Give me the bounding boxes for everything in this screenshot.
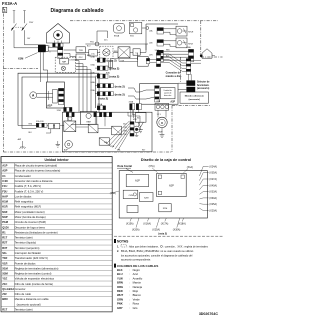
unit boundary tee (dash-dot) <box>3 68 38 70</box>
legend table Unidad interior <box>1 157 112 312</box>
fan-out wires to bottom <box>106 121 129 144</box>
svg-text:(accesorio): (accesorio) <box>197 88 209 90</box>
remote sensor box <box>129 22 141 33</box>
svg-text:F3U: F3U <box>2 189 7 193</box>
svg-text:(X1A): (X1A) <box>187 166 193 169</box>
fan motor connector X1A dark <box>130 104 135 110</box>
svg-text:: hilos que deben instalarse,: : hilos que deben instalarse, <box>128 245 159 248</box>
svg-text:Conector: Conector <box>15 287 26 291</box>
svg-text:L5B: L5B <box>149 42 153 44</box>
relay KHuR symbol <box>176 26 187 36</box>
svg-text:Vista frontal: Vista frontal <box>117 164 132 168</box>
svg-text:A4P: A4P <box>18 138 22 141</box>
M1P ground <box>161 128 163 135</box>
svg-text:R1T: R1T <box>2 308 7 312</box>
terminal down wire 2 <box>42 52 44 70</box>
svg-text:Interruptor del flotador: Interruptor del flotador <box>15 251 42 255</box>
svg-text:R1T: R1T <box>142 149 146 151</box>
svg-text:SS1: SS1 <box>130 35 135 37</box>
svg-text:Selector de: Selector de <box>197 81 210 84</box>
strip connector a <box>66 112 74 116</box>
indoor unit pictogram top right <box>202 49 212 58</box>
svg-text:YLW: YLW <box>117 276 123 280</box>
layout inner box A1P <box>126 174 148 186</box>
relay K4R box <box>112 126 122 135</box>
wire K1M to Q1DI <box>71 124 81 126</box>
wire X40A to pcb <box>95 85 97 87</box>
svg-text:Placa de circuito impreso (pri: Placa de circuito impreso (principal) <box>15 164 58 168</box>
svg-text:(X27A): (X27A) <box>209 178 217 181</box>
svg-text:Filtro de ruido (núcleo de fer: Filtro de ruido (núcleo de ferrita) <box>15 282 53 286</box>
svg-text:FX3A-A: FX3A-A <box>2 1 17 6</box>
left drop wire 1 <box>18 125 36 127</box>
svg-text::: : <box>129 277 130 280</box>
M1F wires <box>130 110 132 122</box>
svg-text:Motor (ventilador interior): Motor (ventilador interior) <box>15 210 45 214</box>
svg-text:A: A <box>32 94 35 98</box>
float wires <box>131 110 133 115</box>
connector X35A row2 <box>157 40 163 46</box>
svg-text:Q1-GB1A: Q1-GB1A <box>2 287 14 291</box>
svg-text:L5R: L5R <box>149 54 153 56</box>
svg-text:X35A: X35A <box>90 63 95 66</box>
connector X2M under A1P <box>64 107 72 111</box>
Q1DI breaker box <box>80 111 96 124</box>
svg-text:Resistencia (limitadora de cor: Resistencia (limitadora de corriente) <box>15 230 58 234</box>
M1P wires <box>157 110 159 117</box>
small box Z1C pair <box>89 50 98 56</box>
wire bus drop to selector 2 <box>190 74 192 80</box>
layout box A2P <box>157 173 187 196</box>
terminal X2M circles <box>155 103 169 110</box>
revision mark symbol <box>3 7 7 12</box>
connector X60A column <box>156 53 160 67</box>
svg-text:R1T: R1T <box>2 236 7 240</box>
wire terminal to X1A row1 <box>48 47 57 49</box>
svg-text:F1U: F1U <box>2 184 7 188</box>
svg-text:(X20A): (X20A) <box>209 210 217 213</box>
connector X33A <box>97 92 113 96</box>
svg-text:3D026764C: 3D026764C <box>199 312 219 316</box>
svg-text:Conector del mando a distancia: Conector del mando a distancia <box>15 179 53 183</box>
S1L pins <box>54 41 56 44</box>
wire X27A to pcb <box>95 75 97 77</box>
svg-text:Termistor (aire): Termistor (aire) <box>15 308 33 312</box>
float sensor triangle <box>138 122 144 127</box>
svg-text::: : <box>129 307 130 310</box>
boundary top (dash-dot) <box>70 20 218 22</box>
svg-text:16V: 16V <box>27 38 31 40</box>
svg-text:C1: C1 <box>2 174 6 178</box>
svg-text:XXX : regleta de terminales: XXX : regleta de terminales <box>177 245 208 248</box>
svg-text:(X40A): (X40A) <box>209 184 217 187</box>
svg-text:BLU: BLU <box>117 272 123 276</box>
svg-text:(X25A): (X25A) <box>209 203 217 206</box>
svg-text:BRC: BRC <box>2 297 8 301</box>
connector X27A <box>97 74 108 78</box>
control box outline outer corner <box>18 73 99 125</box>
circuit breaker pole 2 <box>22 24 27 31</box>
svg-text:Condensador: Condensador <box>15 174 31 178</box>
svg-text:A1P: A1P <box>135 178 140 182</box>
fuse F1U <box>95 42 99 46</box>
svg-text:: conexión,: : conexión, <box>163 245 176 248</box>
transformer box lower <box>76 54 85 60</box>
capacitor C2 circle <box>65 141 73 149</box>
notes header bar <box>114 239 116 243</box>
boundary horizontal at mando (dash-dot) <box>172 104 210 106</box>
svg-text:X2M: X2M <box>156 101 160 103</box>
svg-text:Z1F: Z1F <box>2 292 7 296</box>
svg-text:(X15A): (X15A) <box>126 222 134 225</box>
svg-text:Marrón: Marrón <box>133 281 142 285</box>
wires X60A diagonal bundle <box>161 54 187 63</box>
svg-text:(X33A): (X33A) <box>209 191 217 194</box>
wires group to X30A <box>163 50 188 52</box>
svg-text:Luz de diodos: Luz de diodos <box>15 194 32 198</box>
wire F3U feed <box>111 58 138 60</box>
X15A connector <box>146 58 149 63</box>
svg-text:HAP: HAP <box>2 194 8 198</box>
capacitor C1 box <box>133 49 140 55</box>
PCB A1P box <box>46 82 64 108</box>
svg-text::: : <box>129 290 130 293</box>
svg-text:Q1DI: Q1DI <box>2 225 9 229</box>
wire bend into M1F <box>128 112 140 127</box>
svg-text:M1P: M1P <box>2 215 8 219</box>
main feed wire <box>85 43 148 45</box>
svg-text:Amarillo: Amarillo <box>133 276 143 280</box>
svg-text:(nota 5): (nota 5) <box>158 232 167 235</box>
svg-text:BLK: BLK <box>117 268 123 272</box>
svg-text:R1: R1 <box>2 230 6 234</box>
wires into A2P <box>136 53 138 60</box>
svg-text:GRN: GRN <box>117 297 123 301</box>
svg-text:COLORES DE LOS CABLES: COLORES DE LOS CABLES <box>117 264 158 268</box>
svg-text:X2M: X2M <box>2 272 8 276</box>
svg-text:1: 1 <box>49 46 50 48</box>
svg-text:X2M: X2M <box>57 110 61 112</box>
svg-text:X27A: X27A <box>90 71 95 74</box>
svg-text:mando a dist.: mando a dist. <box>166 75 182 78</box>
svg-text:Y1E: Y1E <box>2 277 7 281</box>
connector X40A <box>97 84 113 88</box>
svg-text:X1M: X1M <box>163 208 168 210</box>
svg-text:A1P: A1P <box>47 104 52 108</box>
svg-text:M1F: M1F <box>2 210 8 214</box>
svg-text:Transformador (220 V/22 V): Transformador (220 V/22 V) <box>15 256 48 260</box>
strip wires <box>50 129 52 133</box>
dashed separator under layout <box>114 235 223 237</box>
svg-text:S1L: S1L <box>137 118 140 120</box>
svg-text:(nota 2): (nota 2) <box>115 92 125 96</box>
transformer T1R box upper <box>76 47 85 53</box>
svg-text:T1R: T1R <box>2 256 7 260</box>
boundary right upper (dash-dot) <box>200 21 202 57</box>
svg-text:A2P: A2P <box>170 101 175 104</box>
svg-text:X9A: X9A <box>117 149 121 152</box>
svg-text:Regleta de terminales (control: Regleta de terminales (control) <box>15 272 52 276</box>
svg-text:L5A: L5A <box>149 29 153 32</box>
A2P box <box>140 84 178 105</box>
svg-text:A3P: A3P <box>64 148 68 151</box>
svg-text:C4N: C4N <box>129 195 134 197</box>
svg-text:X33A: X33A <box>90 89 95 92</box>
svg-text:Diagrama de cableado: Diagrama de cableado <box>50 8 103 14</box>
connector X35A row3 <box>157 50 163 62</box>
svg-text:Rosa: Rosa <box>133 302 140 306</box>
boundary right lower (dash-dot) <box>171 105 173 152</box>
HAP lamp circle <box>61 66 65 70</box>
svg-text:Fusible (T, 6,3 A, 250 V): Fusible (T, 6,3 A, 250 V) <box>15 189 44 193</box>
svg-text:(nota 2): (nota 2) <box>115 84 125 88</box>
wire long feed <box>85 52 88 54</box>
left small antenna sym <box>21 141 23 147</box>
svg-text:1: 1 <box>4 9 6 13</box>
drain pump motor M1P <box>157 117 167 127</box>
svg-text:(X35A): (X35A) <box>209 172 217 175</box>
M1F ground <box>136 133 138 136</box>
HAP dashed enclosure <box>55 57 75 72</box>
svg-text:X40A: X40A <box>90 81 95 84</box>
svg-text:Relé magnético: Relé magnético <box>15 200 34 204</box>
wires to relay KHuR <box>163 28 176 30</box>
strip connector c <box>104 112 112 116</box>
svg-text:Z1C: Z1C <box>2 282 7 286</box>
layout box C4N <box>123 190 138 198</box>
svg-text:Mando a distancia: Mando a distancia <box>185 95 205 98</box>
svg-text:Negro: Negro <box>133 268 141 272</box>
control box outline inner corner <box>22 77 95 129</box>
svg-text:X29A: X29A <box>129 101 134 104</box>
A2P connector column <box>155 86 160 102</box>
svg-text:BLU: BLU <box>87 45 91 47</box>
fuse F3U symbol <box>109 59 113 71</box>
svg-text:NOTAS: NOTAS <box>117 240 129 244</box>
svg-text:(X20A): (X20A) <box>132 229 140 232</box>
svg-text:X21A: X21A <box>110 145 115 148</box>
float sensor box <box>135 113 146 123</box>
connector X35A row1 <box>157 28 163 34</box>
wireless receiver symbol <box>114 23 125 33</box>
remote controller box <box>180 92 208 103</box>
svg-text:A1P: A1P <box>2 164 7 168</box>
svg-text:Puente de diodos: Puente de diodos <box>15 261 37 265</box>
wire X24A to pcb <box>95 59 97 61</box>
svg-text:(nota 2): (nota 2) <box>109 67 119 71</box>
connector X35A <box>97 66 108 70</box>
svg-text:Z2C: Z2C <box>104 40 108 42</box>
wires to house connector <box>191 59 201 61</box>
svg-text:Mando a distancia con cable: Mando a distancia con cable <box>15 297 50 301</box>
svg-text:Circuito de inversor (PAM): Circuito de inversor (PAM) <box>15 220 46 224</box>
svg-text:BS1A: BS1A <box>114 34 120 37</box>
colores header <box>114 264 116 268</box>
svg-text:accesorio correspondiente.: accesorio correspondiente. <box>121 259 151 262</box>
svg-text:X1A F3U: X1A F3U <box>36 120 44 123</box>
colour row GRN <box>117 297 140 301</box>
svg-text:HAP: HAP <box>62 61 67 64</box>
svg-text:X30A: X30A <box>186 46 191 49</box>
wire cap onward <box>140 51 146 53</box>
svg-text:Diseño de la caja de control: Diseño de la caja de control <box>141 158 191 162</box>
layout outer box <box>119 171 207 218</box>
svg-text:A2P: A2P <box>169 183 174 187</box>
bottom strip board <box>62 112 152 152</box>
svg-text:R3T: R3T <box>2 246 7 250</box>
wire L to terminal <box>14 47 38 49</box>
wire to bridge <box>97 52 99 54</box>
svg-text:X35A: X35A <box>97 103 103 106</box>
svg-text:F1U: F1U <box>90 42 94 44</box>
svg-text:A2P: A2P <box>2 169 7 173</box>
wires X15A right <box>150 58 156 60</box>
wire N to terminal <box>25 44 39 46</box>
wire X33A to pcb <box>95 93 97 95</box>
plug housing <box>53 89 58 103</box>
connector X30A <box>188 49 193 61</box>
svg-text:(X60A): (X60A) <box>209 197 217 200</box>
wire supply N <box>24 11 26 24</box>
layout small box bottom <box>159 204 171 212</box>
HAP pilot lamp box <box>60 58 69 64</box>
svg-text:(accesorio): (accesorio) <box>189 98 200 101</box>
svg-text:Motor (bomba de drenaje): Motor (bomba de drenaje) <box>15 215 46 219</box>
ground in strip <box>57 141 59 144</box>
svg-text:Filtro de ruido: Filtro de ruido <box>15 292 32 296</box>
svg-text:Termistor (líquido): Termistor (líquido) <box>15 241 37 245</box>
wire bundle bend 2 <box>76 64 83 112</box>
svg-text:C1: C1 <box>135 52 138 54</box>
wire terminal to X1A row2 <box>48 50 57 52</box>
svg-text:M1P: M1P <box>158 131 163 133</box>
colour row BRN <box>117 281 142 285</box>
svg-text:Unidad interior: Unidad interior <box>45 158 70 162</box>
svg-text:(X25A): (X25A) <box>152 229 160 232</box>
breaker link dashes <box>13 26 24 28</box>
fan motor connector X1A dark b <box>136 104 141 110</box>
svg-text:Z1C: Z1C <box>91 53 95 55</box>
svg-text::: : <box>129 294 130 297</box>
field wiring boundary left (dash-dot) <box>2 7 4 152</box>
svg-text::: : <box>129 282 130 285</box>
relay K5R box <box>99 138 109 145</box>
svg-text:Naranja: Naranja <box>133 285 143 289</box>
svg-text:Rojo: Rojo <box>133 289 139 293</box>
relay KFuR symbol <box>176 38 187 48</box>
terminal down wire 1 <box>39 52 41 82</box>
wire bundle bend 3 <box>76 67 87 112</box>
colour row YLW <box>117 276 143 280</box>
svg-text:PNK: PNK <box>117 302 123 306</box>
wires into K1M <box>47 125 48 127</box>
svg-text:Blanco: Blanco <box>133 293 142 297</box>
relay K1M box <box>64 121 76 132</box>
connector X1A pair <box>36 123 47 127</box>
svg-text:Azul: Azul <box>133 272 139 276</box>
connector X23A right column <box>186 59 191 75</box>
svg-text:Válvula de expansión electróni: Válvula de expansión electrónica <box>15 277 55 281</box>
svg-text:PAM: PAM <box>2 220 9 224</box>
svg-text:K1M: K1M <box>2 200 8 204</box>
svg-text:Z1C: Z1C <box>79 57 84 59</box>
fuse F4U box <box>55 123 60 128</box>
wires A2P to selector <box>178 82 186 84</box>
K1M coil circle <box>68 117 72 121</box>
svg-text:1.: 1. <box>117 245 119 248</box>
svg-text:funcionam.: funcionam. <box>197 85 210 87</box>
svg-text:BLK: BLK <box>29 132 33 134</box>
X15A box top <box>138 57 149 67</box>
svg-text:K1R: K1R <box>2 205 7 209</box>
svg-text:Verde: Verde <box>133 297 141 301</box>
svg-text:RED: RED <box>117 289 123 293</box>
svg-text::: : <box>129 269 130 272</box>
wires X1A to T1R <box>64 49 76 51</box>
connector X1A pins column <box>58 47 63 58</box>
noise filter toroid Z1C dashed box <box>100 46 113 59</box>
selector black contact upper <box>186 80 195 85</box>
svg-text:dirección: dirección <box>164 95 171 97</box>
svg-text:(X30A): (X30A) <box>173 229 181 232</box>
svg-text:C4N: C4N <box>2 179 7 183</box>
connector column on A1P <box>58 88 63 104</box>
svg-text::: : <box>129 298 130 301</box>
colour row BLK <box>117 268 140 272</box>
left drop wire 2 <box>22 128 36 130</box>
wires circled A to plug <box>37 93 53 95</box>
svg-text:(nota 2): (nota 2) <box>107 59 117 63</box>
wire F3U feed b <box>119 60 138 62</box>
wire bundle bend 1 <box>76 61 79 112</box>
svg-text:Relé magnético (M1F): Relé magnético (M1F) <box>15 205 42 209</box>
fan motor M1F circle <box>133 126 140 133</box>
svg-text:X1M: X1M <box>18 57 23 61</box>
svg-text:3: 3 <box>49 52 50 54</box>
svg-text:T1R: T1R <box>79 50 84 52</box>
svg-text:RED: RED <box>114 51 118 53</box>
layout box X2M <box>139 193 153 202</box>
svg-text:(accesorio opcional): (accesorio opcional) <box>17 302 41 306</box>
wire bus drop to selector 1 <box>187 74 189 80</box>
relay K3R box <box>88 124 98 133</box>
colour row BLU <box>117 272 138 276</box>
svg-text:GRY: GRY <box>117 306 123 310</box>
wire bridge to cap <box>130 51 133 53</box>
colour row PNK <box>117 302 139 306</box>
svg-text:M: M <box>161 121 164 125</box>
svg-text:PAM: PAM <box>87 120 92 123</box>
svg-text::: : <box>129 286 130 289</box>
svg-text:X2M: X2M <box>144 197 149 199</box>
connector column X20A <box>130 122 134 137</box>
selector black contact lower <box>186 87 195 92</box>
squiggle wires into A2P <box>128 88 155 92</box>
toroid coil <box>103 49 110 56</box>
svg-text:Disyuntor de fuga a tierra: Disyuntor de fuga a tierra <box>15 225 46 229</box>
svg-text:R2T: R2T <box>2 241 7 245</box>
svg-text:Regleta de terminales (aliment: Regleta de terminales (alimentación) <box>15 266 59 270</box>
junction circle <box>146 27 149 30</box>
svg-text:(X5A): (X5A) <box>110 192 116 195</box>
colour row WHT <box>117 293 141 297</box>
svg-text:KFuR: KFuR <box>188 43 193 45</box>
circuit breaker pole 1 <box>12 24 17 31</box>
svg-text:BRN: BRN <box>117 281 123 285</box>
terminal block X1M (black) <box>38 45 46 53</box>
wire X35A to pcb <box>95 67 97 69</box>
svg-text:(nota 2): (nota 2) <box>98 97 108 101</box>
